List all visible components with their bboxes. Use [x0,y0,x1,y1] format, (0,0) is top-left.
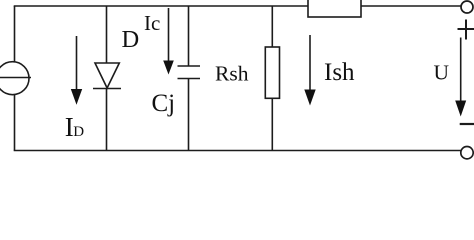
wire diode branch lower [106,89,108,151]
resistor Rsh box [265,47,279,98]
current arrow Ish [304,35,315,106]
wire Rsh branch lower [271,98,273,150]
wire capacitor branch upper [188,6,190,66]
current source bar [0,77,31,79]
svg-text:Cj: Cj [152,90,176,117]
terminal bottom-right [461,147,473,159]
wire top rail right [361,5,461,7]
diode D cathode bar [93,88,121,90]
plus sign [458,20,474,40]
wire Rsh branch upper [271,6,273,47]
current arrow Ic [163,8,174,75]
wire left vertical upper [14,6,16,62]
svg-text:Rsh: Rsh [215,62,249,86]
voltage arrow U [455,38,466,117]
capacitor Cj top plate [178,65,201,67]
svg-text:U: U [434,61,450,85]
wire top rail left [14,5,308,7]
wire capacitor branch lower [188,79,190,151]
svg-text:Ic: Ic [144,11,160,35]
svg-text:D: D [122,26,140,53]
svg-text:ID: ID [65,112,85,142]
svg-text:Ish: Ish [324,59,355,86]
wire bottom rail [14,150,461,152]
capacitor Cj bottom plate [178,78,201,80]
wire diode branch upper [106,6,108,63]
resistor Rs (series box, top cropped) [308,0,361,17]
diode D triangle [95,63,119,88]
terminal top-right [461,1,473,13]
current source Iph circle [0,62,29,95]
wire left vertical lower [14,95,16,151]
minus sign [460,123,474,125]
current arrow ID [71,36,82,105]
